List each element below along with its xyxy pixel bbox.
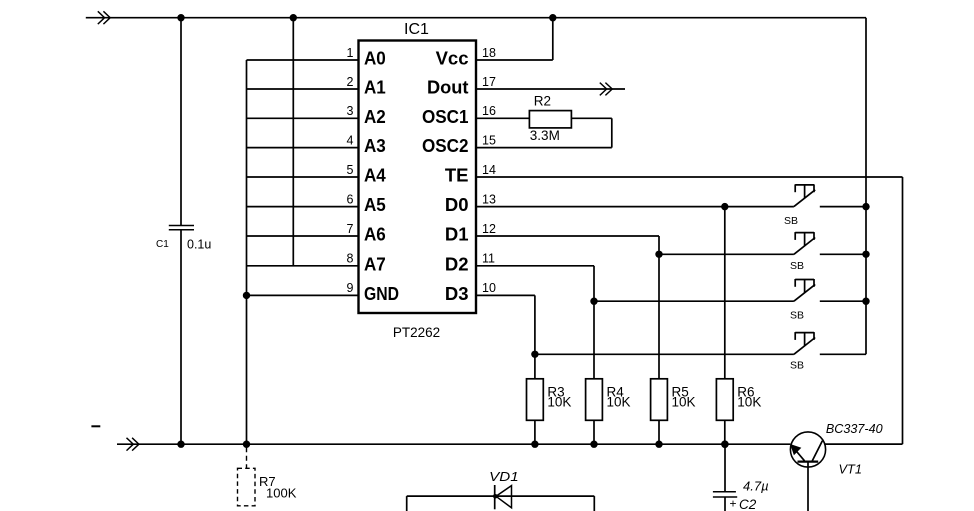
transistor VT1 collector [812,441,822,461]
transistor VT1 body [790,432,825,467]
pin number 5 [347,163,354,177]
wire R3 upper lead [534,354,536,379]
junction GND row / minus bus [243,292,250,299]
pin number 12 [482,222,496,236]
svg-text:10K: 10K [672,395,696,410]
value 4.7µ [743,479,769,494]
value R3 10K [547,395,571,410]
svg-text:Dout: Dout [427,77,469,98]
svg-text:SB: SB [790,260,804,272]
svg-text:OSC2: OSC2 [422,135,469,156]
pin label D2 [445,253,469,274]
pin number 13 [482,192,496,206]
capacitor C2 (polarized) [713,492,737,497]
svg-text:+: + [730,497,737,511]
svg-text:100K: 100K [266,486,297,501]
pin label A3 [364,135,386,156]
svg-text:6: 6 [347,192,354,206]
svg-text:PT2262: PT2262 [393,325,440,340]
svg-text:OSC1: OSC1 [422,106,469,127]
wire pin 8 (A7) [247,265,359,267]
svg-text:C1: C1 [156,239,169,250]
wire C2 lower lead [724,497,726,511]
label C1 [156,239,169,250]
wire R7 lead (dashed) [246,447,248,468]
svg-text:10K: 10K [737,395,761,410]
svg-text:9: 9 [347,281,354,295]
label +C2 [730,497,757,511]
pin label A7 [364,253,386,274]
wire button row 4 [535,353,794,355]
pin label A5 [364,194,386,215]
wire TE pin 14 [476,177,903,444]
wire pin 3 (A2) [247,117,359,119]
pin number 9 [347,281,354,295]
power input connector arrow (top-left) [98,11,110,24]
wire D3 pin 10 [476,295,535,354]
label SB3 [790,309,804,321]
resistor R7 (dashed outline) [238,468,256,506]
pin number 6 [347,192,354,206]
svg-text:10K: 10K [607,395,631,410]
pin number 1 [347,46,354,60]
junction bottom rail / C2 [721,441,728,448]
wire OSC1 pin 16 to R2 [476,117,529,119]
junction top rail / C1 [177,14,184,21]
Dout output connector arrow [600,83,612,96]
junction bottom rail / C1 [177,441,184,448]
svg-text:11: 11 [482,252,495,266]
wire R6 upper lead [724,207,726,379]
svg-text:8: 8 [347,252,354,266]
value R6 10K [737,395,761,410]
svg-text:A1: A1 [364,77,386,98]
wire button SB1 to right rail [820,206,866,208]
transistor VT1 base bar [798,461,819,463]
label R7 [259,474,276,489]
label IC1 [404,21,429,38]
wire button SB2 to right rail [820,253,866,255]
IC IC1 body (PT2262) [359,41,477,314]
capacitor C1 [169,226,194,230]
value 0.1u [187,238,211,252]
wire pin 9 (GND) [247,294,359,296]
wire D2 pin 11 [476,266,594,301]
wire Vcc pin 18 to top rail [476,18,553,60]
svg-text:13: 13 [482,192,496,206]
label PT2262 [393,325,440,340]
wire R5 upper lead [658,254,660,378]
pushbutton SB4 [794,332,815,354]
value R5 10K [672,395,696,410]
svg-text:SB: SB [790,359,804,371]
wire C2 upper lead [724,444,726,491]
minus label [91,425,100,427]
wire pin 7 (A6) [247,235,359,237]
svg-text:10K: 10K [547,395,571,410]
pin label D0 [445,194,469,215]
label SB2 [790,260,804,272]
pin label A6 [364,224,386,245]
junction button row 2 / R5 [655,251,662,258]
svg-text:A0: A0 [364,48,386,69]
wire R5 lower lead [658,420,660,444]
label SB1 [784,215,798,227]
pushbutton SB2 [794,232,815,254]
wire top +V rail [86,17,866,19]
pushbutton SB3 [794,279,815,301]
svg-text:7: 7 [347,222,354,236]
pin number 18 [482,46,496,60]
junction button row 3 / R4 [590,298,597,305]
junction D0 / R6 [721,203,728,210]
pin label Dout [427,77,469,98]
pin number 7 [347,222,354,236]
svg-text:15: 15 [482,133,496,147]
wire collector to TE vertical [825,443,903,445]
junction right rail row 3 [862,298,869,305]
svg-text:A7: A7 [364,253,386,274]
label R5 [672,384,689,399]
pin label A0 [364,48,386,69]
wire R4 upper lead [593,301,595,379]
junction bottom rail / R3 [531,441,538,448]
svg-text:2: 2 [347,75,354,89]
wire C1 upper lead [180,18,182,226]
pin number 2 [347,75,354,89]
svg-text:4: 4 [347,133,354,147]
svg-text:TE: TE [445,165,469,186]
svg-text:A6: A6 [364,224,386,245]
wire minus bus vertical (address pins to bottom rail) [246,60,248,444]
pin number 8 [347,252,354,266]
label SB4 [790,359,804,371]
svg-text:0.1u: 0.1u [187,238,211,252]
wire button SB4 to right rail [820,353,866,355]
pin label D1 [445,224,469,245]
junction bottom rail / minus bus [243,441,250,448]
svg-text:VD1: VD1 [489,469,519,484]
wire A7 bus vertical (top rail to pin 8) [292,18,294,266]
svg-text:VT1: VT1 [839,462,862,477]
resistor R6 [716,379,733,421]
wire pin 6 (A5) [247,206,359,208]
minus input connector arrow [127,438,139,451]
pin number 4 [347,133,354,147]
svg-text:IC1: IC1 [404,21,429,38]
pin label TE [445,165,469,186]
label R4 [607,384,625,399]
pin label OSC1 [422,106,469,127]
svg-text:Vcc: Vcc [436,48,469,69]
svg-text:D0: D0 [445,194,469,215]
label BC337-40 [826,422,883,436]
pin number 15 [482,133,496,147]
pin number 10 [482,281,496,295]
wire pin 2 (A1) [247,88,359,90]
svg-text:R2: R2 [534,94,551,109]
wire pin 4 (A3) [247,147,359,149]
junction right rail row 2 [862,251,869,258]
transistor VT1 emitter (arrow to minus rail) [791,445,805,461]
svg-text:SB: SB [784,215,798,227]
pin label D3 [445,283,469,304]
svg-text:D1: D1 [445,224,469,245]
wire R2 to OSC2 pin 15 [476,118,612,147]
wire VD1 left segment [407,496,495,511]
junction top rail / Vcc [549,14,556,21]
pushbutton SB1 [794,184,815,206]
pin number 17 [482,75,496,89]
label R3 [547,384,564,399]
svg-text:A3: A3 [364,135,386,156]
svg-text:A4: A4 [364,165,386,186]
pin label A4 [364,165,386,186]
pin label Vcc [436,48,469,69]
diode VD1 [493,485,512,509]
pin number 14 [482,163,496,177]
value R4 10K [607,395,631,410]
wire button row 3 [594,300,794,302]
svg-text:BC337-40: BC337-40 [826,422,883,436]
svg-text:17: 17 [482,75,496,89]
wire button row 2 [659,253,794,255]
resistor R4 [586,379,603,421]
wire right rail (buttons to +V) [865,18,867,355]
pin number 3 [347,104,354,118]
wire R6 lower lead [724,420,726,444]
svg-text:1: 1 [347,46,354,60]
junction button row 4 / R3 [531,351,538,358]
svg-text:18: 18 [482,46,496,60]
label R2 [534,94,551,109]
svg-text:3.3M: 3.3M [530,128,560,143]
wire button SB3 to right rail [820,300,866,302]
wire R3 lower lead [534,420,536,444]
wire pin 1 (A0) [247,59,359,61]
svg-text:GND: GND [364,283,399,304]
svg-text:16: 16 [482,104,496,118]
value 3.3M [530,128,560,143]
label VT1 [839,462,862,477]
svg-text:5: 5 [347,163,354,177]
wire R4 lower lead [593,420,595,444]
resistor R3 [527,379,544,421]
junction top rail / A7 bus [290,14,297,21]
svg-text:D3: D3 [445,283,469,304]
svg-text:D2: D2 [445,253,469,274]
svg-text:A5: A5 [364,194,386,215]
value R7 100K [266,486,297,501]
wire VT1 base lead [807,462,809,511]
svg-text:4.7µ: 4.7µ [743,479,769,494]
svg-text:A2: A2 [364,106,386,127]
label VD1 [489,469,519,484]
wire D0 pin 13 to button SB1 [476,206,794,208]
pin label OSC2 [422,135,469,156]
svg-text:10: 10 [482,281,496,295]
junction right rail row 1 [862,203,869,210]
svg-text:3: 3 [347,104,354,118]
svg-text:SB: SB [790,309,804,321]
svg-text:12: 12 [482,222,496,236]
svg-text:C2: C2 [739,497,757,511]
junction bottom rail / R6 [721,441,728,448]
wire bottom minus rail [117,443,790,445]
junction bottom rail / R5 [655,441,662,448]
wire VD1 right segment [495,496,595,511]
resistor R5 [651,379,668,421]
label R6 [737,384,754,399]
wire Dout pin 17 [476,88,625,90]
pin label A1 [364,77,386,98]
resistor R2 [529,111,571,128]
pin number 11 [482,252,495,266]
wire pin 5 (A4) [247,176,359,178]
wire D1 pin 12 [476,236,659,254]
pin label GND [364,283,399,304]
svg-text:14: 14 [482,163,496,177]
pin number 16 [482,104,496,118]
wire C1 lower lead [180,230,182,444]
junction bottom rail / R4 [590,441,597,448]
pin label A2 [364,106,386,127]
